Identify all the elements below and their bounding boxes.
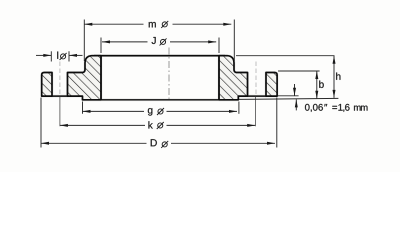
scan softness halo: [42, 56, 277, 100]
flange right hub section: [219, 56, 248, 100]
dimension h: [333, 56, 335, 98]
extension line hub top right: [236, 55, 335, 57]
flange axis centerline: [168, 48, 170, 101]
label J dia: [152, 37, 156, 44]
extension line flange top right: [278, 70, 320, 72]
dimension l dia arrows: [36, 54, 51, 56]
raised face height upper arrow: [294, 84, 296, 96]
dimension m dia line: [84, 23, 143, 25]
dimension g dia extension lines: [82, 102, 84, 114]
extension line raised face right: [239, 98, 338, 99]
label m dia: [149, 22, 156, 27]
right bolt hole centerline: [255, 62, 257, 96]
dimension b: [316, 71, 318, 99]
label k dia: [148, 121, 152, 128]
bore right edge: [218, 56, 220, 100]
dimension g dia line: [83, 110, 145, 112]
dimension l dia ticks: [50, 51, 52, 61]
bore left edge: [100, 56, 102, 100]
dimension D dia extension lines: [40, 98, 42, 148]
flange right rim section: [266, 73, 277, 97]
dimension m dia extension lines: [83, 20, 85, 62]
dimension J dia extension lines: [100, 38, 102, 54]
flange left hub section: [68, 56, 102, 100]
dimension k dia line: [60, 124, 145, 126]
dimension J dia line: [102, 41, 148, 43]
flange bottom under left bolt hole: [52, 95, 69, 97]
raised face height lower arrow: [295, 99, 297, 110]
raised face bottom edge: [83, 99, 239, 101]
extension line flange bottom right: [278, 95, 299, 97]
flange left rim section: [42, 73, 52, 97]
label g dia: [148, 108, 152, 115]
label h: [336, 73, 340, 80]
label b: [319, 81, 323, 88]
dimension D dia line: [41, 142, 147, 144]
left bolt hole centerline: [59, 62, 61, 96]
flange bottom under right bolt hole: [247, 95, 267, 97]
label D dia: [151, 139, 157, 146]
label 0,06 inch: [305, 104, 323, 112]
hub top and bore top edge: [94, 55, 225, 57]
label l dia: [56, 52, 59, 59]
